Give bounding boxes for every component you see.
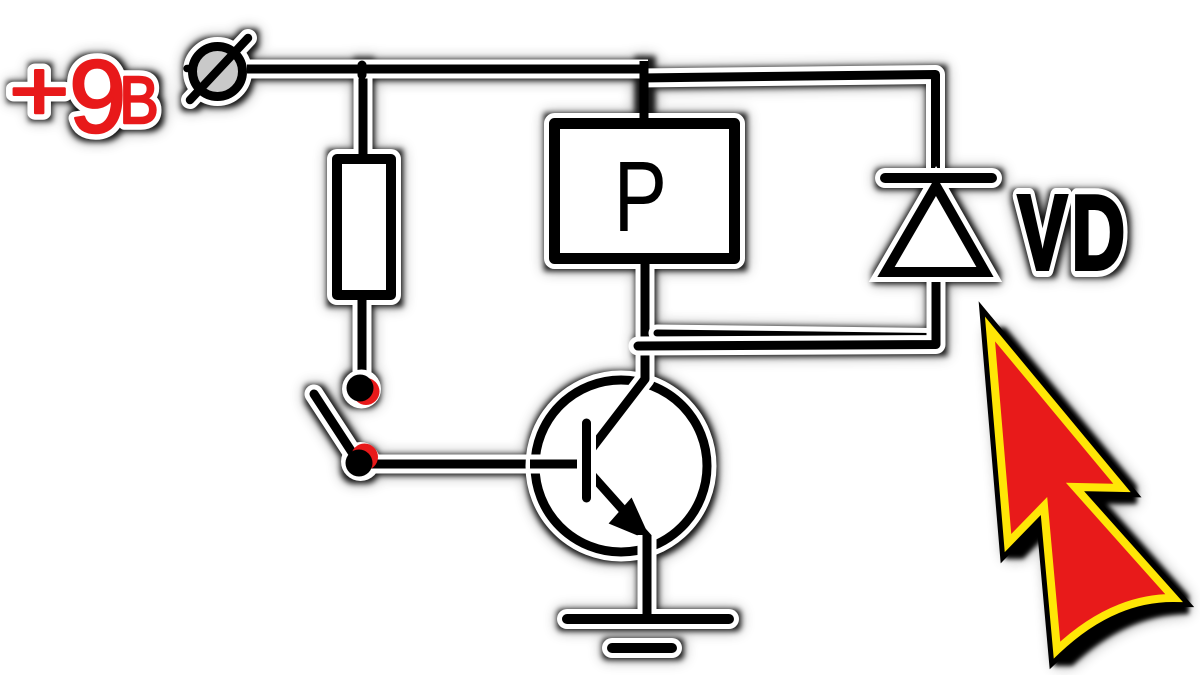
svg-text:В: В [119, 64, 158, 138]
svg-text:+: + [9, 42, 69, 139]
svg-text:9: 9 [69, 39, 126, 154]
svg-text:P: P [614, 142, 667, 254]
svg-text:VD: VD [1018, 174, 1129, 292]
